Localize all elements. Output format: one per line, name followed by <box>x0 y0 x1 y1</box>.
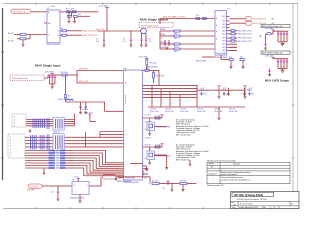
svg-text:37: 37 <box>278 207 280 209</box>
svg-text:J1: J1 <box>14 119 16 121</box>
svg-text:C8: C8 <box>149 39 151 41</box>
svg-text:C13 C14: C13 C14 <box>229 109 235 111</box>
svg-text:C20: C20 <box>51 192 54 194</box>
svg-text:LVDS: LVDS <box>222 50 226 52</box>
svg-text:0.1uF 0.1uF: 0.1uF 0.1uF <box>150 111 159 113</box>
svg-text:0.1u: 0.1u <box>96 41 99 43</box>
svg-text:49.9: 49.9 <box>71 9 74 11</box>
svg-text:Tuesday, February 05, 2019: Tuesday, February 05, 2019 <box>238 207 258 209</box>
svg-text:0402: 0402 <box>56 155 59 157</box>
svg-text:0402: 0402 <box>56 153 59 155</box>
svg-text:Y: Y <box>86 185 87 187</box>
svg-text:J2: J2 <box>10 143 12 145</box>
svg-text:C 0.1uF: C 0.1uF <box>82 109 88 111</box>
svg-text:0.1uF 0.1uF: 0.1uF 0.1uF <box>197 111 206 113</box>
svg-text:Thermal PAD: Thermal PAD <box>216 52 227 55</box>
svg-text:J2: J2 <box>10 146 12 148</box>
svg-text:R15: R15 <box>68 96 71 98</box>
svg-text:49.9: 49.9 <box>174 51 177 53</box>
svg-text:CHIPTD: CHIPTD <box>209 164 216 166</box>
svg-text:R22 49.9: R22 49.9 <box>180 180 187 182</box>
svg-text:FB1: FB1 <box>259 36 262 38</box>
svg-text:MUX Single Input: MUX Single Input <box>35 64 60 68</box>
svg-text:C13 C14: C13 C14 <box>165 109 171 111</box>
svg-text:U7: U7 <box>228 9 230 11</box>
svg-text:0402: 0402 <box>56 160 59 162</box>
svg-text:LVDS: LVDS <box>222 24 226 26</box>
svg-text:0402: 0402 <box>56 150 59 152</box>
svg-text:J2: J2 <box>10 152 12 154</box>
svg-text:MUX_LVDS0_CLK: MUX_LVDS0_CLK <box>254 19 267 21</box>
svg-text:LVDS: LVDS <box>222 41 226 43</box>
svg-text:1: 1 <box>213 178 214 180</box>
svg-text:MUX_LVDS_OUT0: MUX_LVDS_OUT0 <box>238 34 252 36</box>
svg-text:0402: 0402 <box>56 158 59 160</box>
svg-text:R3: R3 <box>66 9 68 11</box>
svg-text:MUX_LVDS_OUT1: MUX_LVDS_OUT1 <box>238 41 252 43</box>
svg-text:LVDS: LVDS <box>222 30 226 32</box>
svg-text:MUX LVDS Output 4.4: MUX LVDS Output 4.4 <box>262 52 284 55</box>
svg-text:MUX_CLKSEL: MUX_CLKSEL <box>196 61 207 63</box>
svg-text:MUX Single Input: MUX Single Input <box>12 77 29 80</box>
svg-text:U8: U8 <box>124 68 126 70</box>
svg-text:SN65LVDS93A: SN65LVDS93A <box>215 56 228 59</box>
svg-text:Y3_OUT: Y3_OUT <box>145 138 151 140</box>
svg-text:LVDS: LVDS <box>222 33 226 35</box>
svg-text:ESR : 30 ohm max: ESR : 30 ohm max <box>176 134 190 136</box>
svg-text:R12: R12 <box>229 57 232 59</box>
svg-text:MUX_LVDS1_CLK: MUX_LVDS1_CLK <box>254 23 267 25</box>
svg-text:J1: J1 <box>14 122 16 124</box>
svg-text:MUX Single Output: MUX Single Output <box>141 25 159 28</box>
svg-text:J2: J2 <box>10 149 12 151</box>
svg-text:MUX_OUT: MUX_OUT <box>103 175 111 177</box>
svg-text:R8 1.00K: R8 1.00K <box>150 63 158 65</box>
svg-text:C13 C14: C13 C14 <box>150 109 156 111</box>
svg-text:0.1u: 0.1u <box>149 41 152 43</box>
svg-text:0.1uF 0.1uF: 0.1uF 0.1uF <box>229 111 238 113</box>
svg-text:R2 10K: R2 10K <box>8 41 15 43</box>
svg-text:R13: R13 <box>240 57 243 59</box>
svg-text:Size: Size <box>232 202 235 204</box>
svg-text:R / 10K: R / 10K <box>155 145 162 147</box>
svg-text:MUX LVDS Output: MUX LVDS Output <box>265 78 289 82</box>
svg-text:LVDS: LVDS <box>222 44 226 46</box>
svg-text:0402: 0402 <box>56 168 59 170</box>
svg-text:MUX_REF: MUX_REF <box>27 190 35 192</box>
svg-text:C13 C14: C13 C14 <box>214 109 220 111</box>
svg-text:R9 0K DNI: R9 0K DNI <box>156 76 165 78</box>
svg-text:/W_PGOOD_A: /W_PGOOD_A <box>13 11 26 14</box>
svg-text:0.1uF 0.1uF: 0.1uF 0.1uF <box>214 111 223 113</box>
svg-text:C13 C14: C13 C14 <box>180 109 186 111</box>
svg-text:0.1uF 0.1uF: 0.1uF 0.1uF <box>165 111 174 113</box>
svg-text:SN65LVDS1DBVR: SN65LVDS1DBVR <box>117 181 132 183</box>
svg-text:C31: C31 <box>226 94 229 96</box>
svg-text:R5: R5 <box>61 28 63 30</box>
svg-text:ESR : 30 ohm max: ESR : 30 ohm max <box>176 159 190 161</box>
svg-text:0402: 0402 <box>56 163 59 165</box>
svg-text:C12 0.1uF: C12 0.1uF <box>60 72 68 74</box>
svg-text:MUX_LVDS_OUT0: MUX_LVDS_OUT0 <box>238 30 252 32</box>
svg-text:Y0_OUT: Y0_OUT <box>145 115 151 117</box>
svg-text:Rev: Rev <box>291 203 294 205</box>
svg-text:R7 0: R7 0 <box>196 15 200 17</box>
svg-text:C6: C6 <box>96 39 98 41</box>
svg-text:R11: R11 <box>146 68 149 70</box>
svg-text:0.1u: 0.1u <box>123 41 126 43</box>
svg-text:HDR 2x4: HDR 2x4 <box>54 131 61 133</box>
svg-text:49.9: 49.9 <box>78 14 81 16</box>
svg-text:+3.3V_MUX: +3.3V_MUX <box>98 5 109 7</box>
svg-text:C31: C31 <box>203 94 206 96</box>
svg-text:R21 49.9: R21 49.9 <box>152 180 159 182</box>
svg-text:LVDS: LVDS <box>222 38 226 40</box>
svg-text:U5: U5 <box>47 8 49 10</box>
svg-text:J2: J2 <box>10 136 12 138</box>
svg-text:J1: J1 <box>14 116 16 118</box>
svg-text:SN65LVDS2DBV: SN65LVDS2DBV <box>47 44 62 46</box>
svg-text:J2: J2 <box>10 155 12 157</box>
svg-text:C31: C31 <box>251 94 254 96</box>
svg-text:LVDS: LVDS <box>222 21 226 23</box>
svg-text:W_CLK_IN: W_CLK_IN <box>30 186 39 188</box>
svg-text:CLKOUT: CLKOUT <box>145 145 151 147</box>
svg-text:P: P <box>246 19 247 21</box>
svg-text:HP Oak (Chung Kind): HP Oak (Chung Kind) <box>234 193 263 197</box>
svg-text:0402: 0402 <box>56 165 59 167</box>
svg-text:+3.3V: +3.3V <box>50 6 56 8</box>
svg-text:R1 10K: R1 10K <box>8 33 15 35</box>
svg-text:J2: J2 <box>10 140 12 142</box>
svg-text:LVDS: LVDS <box>222 16 226 18</box>
svg-text:C13 C14: C13 C14 <box>197 109 203 111</box>
svg-text:49.9: 49.9 <box>174 38 177 40</box>
svg-text:P: P <box>246 23 247 25</box>
svg-text:MUX_PGOOD_N: MUX_PGOOD_N <box>83 35 98 37</box>
svg-text:MUX_LVDS_OUT1: MUX_LVDS_OUT1 <box>238 38 252 40</box>
svg-text:J1: J1 <box>14 125 16 127</box>
svg-text:U9: U9 <box>72 180 74 182</box>
svg-text:C6: C6 <box>123 39 125 41</box>
svg-text:LVDS: LVDS <box>222 47 226 49</box>
svg-text:HD Master Event Function Table: HD Master Event Function Table <box>207 159 237 162</box>
svg-text:C9: C9 <box>161 38 163 40</box>
svg-text:SN65LVDS1DBVR: SN65LVDS1DBVR <box>70 197 85 199</box>
svg-text:0.1uF 0.1uF: 0.1uF 0.1uF <box>180 111 189 113</box>
svg-text:C22: C22 <box>162 188 165 190</box>
svg-text:LVDS: LVDS <box>222 27 226 29</box>
